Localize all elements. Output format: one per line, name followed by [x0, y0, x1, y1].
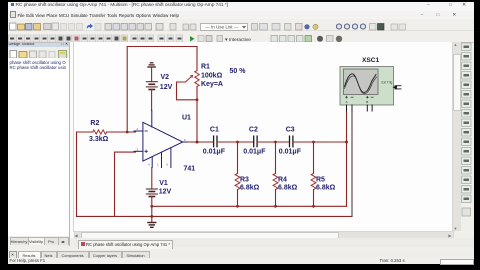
wire top feedback horizontal [127, 45, 197, 47]
svg-text:A: A [345, 100, 347, 104]
resistor R4 [273, 173, 278, 189]
wire feedback left rail vertical [75, 132, 77, 216]
svg-text:0.01μF: 0.01μF [278, 148, 301, 155]
svg-text:Ext Trig: Ext Trig [381, 80, 392, 84]
scope channel letters [345, 100, 368, 104]
wire R4 top lead [274, 142, 276, 173]
op-amp pin numbers [136, 127, 186, 167]
wire R3 bottom lead [236, 189, 238, 206]
svg-text:5: 5 [166, 162, 168, 166]
wire R2 to inverting input [106, 131, 135, 133]
junction node dots [125, 98, 347, 217]
resistor R5 [311, 173, 316, 189]
label C3 [278, 126, 301, 155]
wire feedback left vertical to inverting input [126, 46, 128, 132]
wire R1 top lead [196, 46, 198, 70]
svg-text:U1: U1 [182, 114, 191, 121]
label V1 [158, 179, 171, 195]
scope channel pin stubs [346, 105, 372, 111]
svg-text:4: 4 [148, 162, 150, 166]
wire op-amp output node [188, 141, 213, 143]
svg-text:Key=A: Key=A [201, 80, 223, 87]
wire resistor bottom rail [151, 205, 346, 207]
svg-text:V1: V1 [159, 179, 168, 186]
ground above V2 [147, 62, 154, 66]
wire V2 to op-amp positive supply [150, 89, 152, 110]
wire R3 top lead [236, 142, 238, 173]
svg-text:0.01μF: 0.01μF [202, 148, 225, 155]
svg-text:3.3kΩ: 3.3kΩ [89, 135, 109, 142]
svg-text:R5: R5 [316, 176, 325, 183]
potentiometer R1 [185, 70, 199, 86]
label R3 [240, 176, 260, 191]
svg-text:R2: R2 [90, 120, 99, 127]
wire ground rail bottom [76, 215, 352, 217]
resistor R2 [92, 129, 106, 133]
label C2 [243, 126, 266, 155]
capacitor C3 [289, 136, 292, 147]
scope Ext Trig pin [393, 85, 401, 88]
label C1 [202, 126, 225, 155]
svg-text:6: 6 [184, 137, 186, 141]
wire R4 bottom lead [274, 189, 276, 206]
capacitor C2 [253, 136, 256, 147]
svg-text:3: 3 [136, 147, 138, 151]
resistor R3 [235, 173, 240, 189]
capacitor C1 [213, 136, 216, 147]
label R4 [278, 176, 298, 191]
svg-text:--- In Use List ---: --- In Use List --- [205, 25, 239, 30]
wire R1 bottom to output node [196, 86, 198, 142]
svg-text:1: 1 [157, 162, 159, 166]
battery V1 12V [146, 189, 157, 197]
wire non-inverting input to ground rail [114, 152, 135, 216]
svg-text:XSC1: XSC1 [362, 56, 380, 63]
wire C3 to R5 node to scope [293, 141, 347, 143]
wire C2 to R4 node to C3 [257, 141, 289, 143]
svg-text:2: 2 [136, 127, 138, 131]
svg-text:6.8kΩ: 6.8kΩ [240, 184, 260, 191]
battery V2 12V [146, 81, 157, 89]
wire R1 wiper loop [176, 82, 197, 100]
op-amp U1 741 [134, 110, 188, 167]
wire V1 to op-amp negative supply [150, 167, 152, 189]
wire V1 to ground [150, 196, 152, 222]
svg-text:B: B [366, 100, 368, 104]
op-amp input polarity marks [144, 131, 147, 153]
label R5 [316, 176, 336, 191]
wire C1 to R3 node to C2 [217, 141, 254, 143]
svg-text:R4: R4 [278, 176, 287, 183]
svg-text:C1: C1 [209, 126, 218, 133]
svg-text:C2: C2 [248, 126, 257, 133]
scope channel polarity marks [345, 96, 373, 98]
svg-text:12V: 12V [159, 83, 172, 90]
wire scope channel A positive vertical [345, 108, 347, 206]
label V2 [159, 73, 172, 90]
wire scope channel A negative vertical [351, 108, 353, 216]
svg-text:0.01μF: 0.01μF [243, 148, 266, 155]
svg-text:C3: C3 [285, 126, 294, 133]
wire R2 left lead [76, 131, 92, 133]
label R1 [201, 63, 223, 87]
wire R5 top lead [312, 142, 314, 173]
svg-text:V2: V2 [160, 73, 169, 80]
svg-text:100kΩ: 100kΩ [201, 72, 223, 79]
svg-text:6.8kΩ: 6.8kΩ [316, 184, 336, 191]
svg-text:12V: 12V [158, 188, 171, 195]
svg-text:50 %: 50 % [229, 67, 246, 74]
svg-text:741: 741 [183, 165, 195, 172]
label R2 [89, 120, 109, 143]
ground below V1 [147, 222, 155, 227]
svg-text:R1: R1 [201, 63, 210, 70]
wire ground to V2 [150, 66, 152, 81]
svg-text:R3: R3 [240, 176, 249, 183]
wire R5 bottom lead [312, 189, 314, 206]
svg-text:6.8kΩ: 6.8kΩ [278, 184, 298, 191]
oscilloscope XSC1 [340, 66, 394, 105]
